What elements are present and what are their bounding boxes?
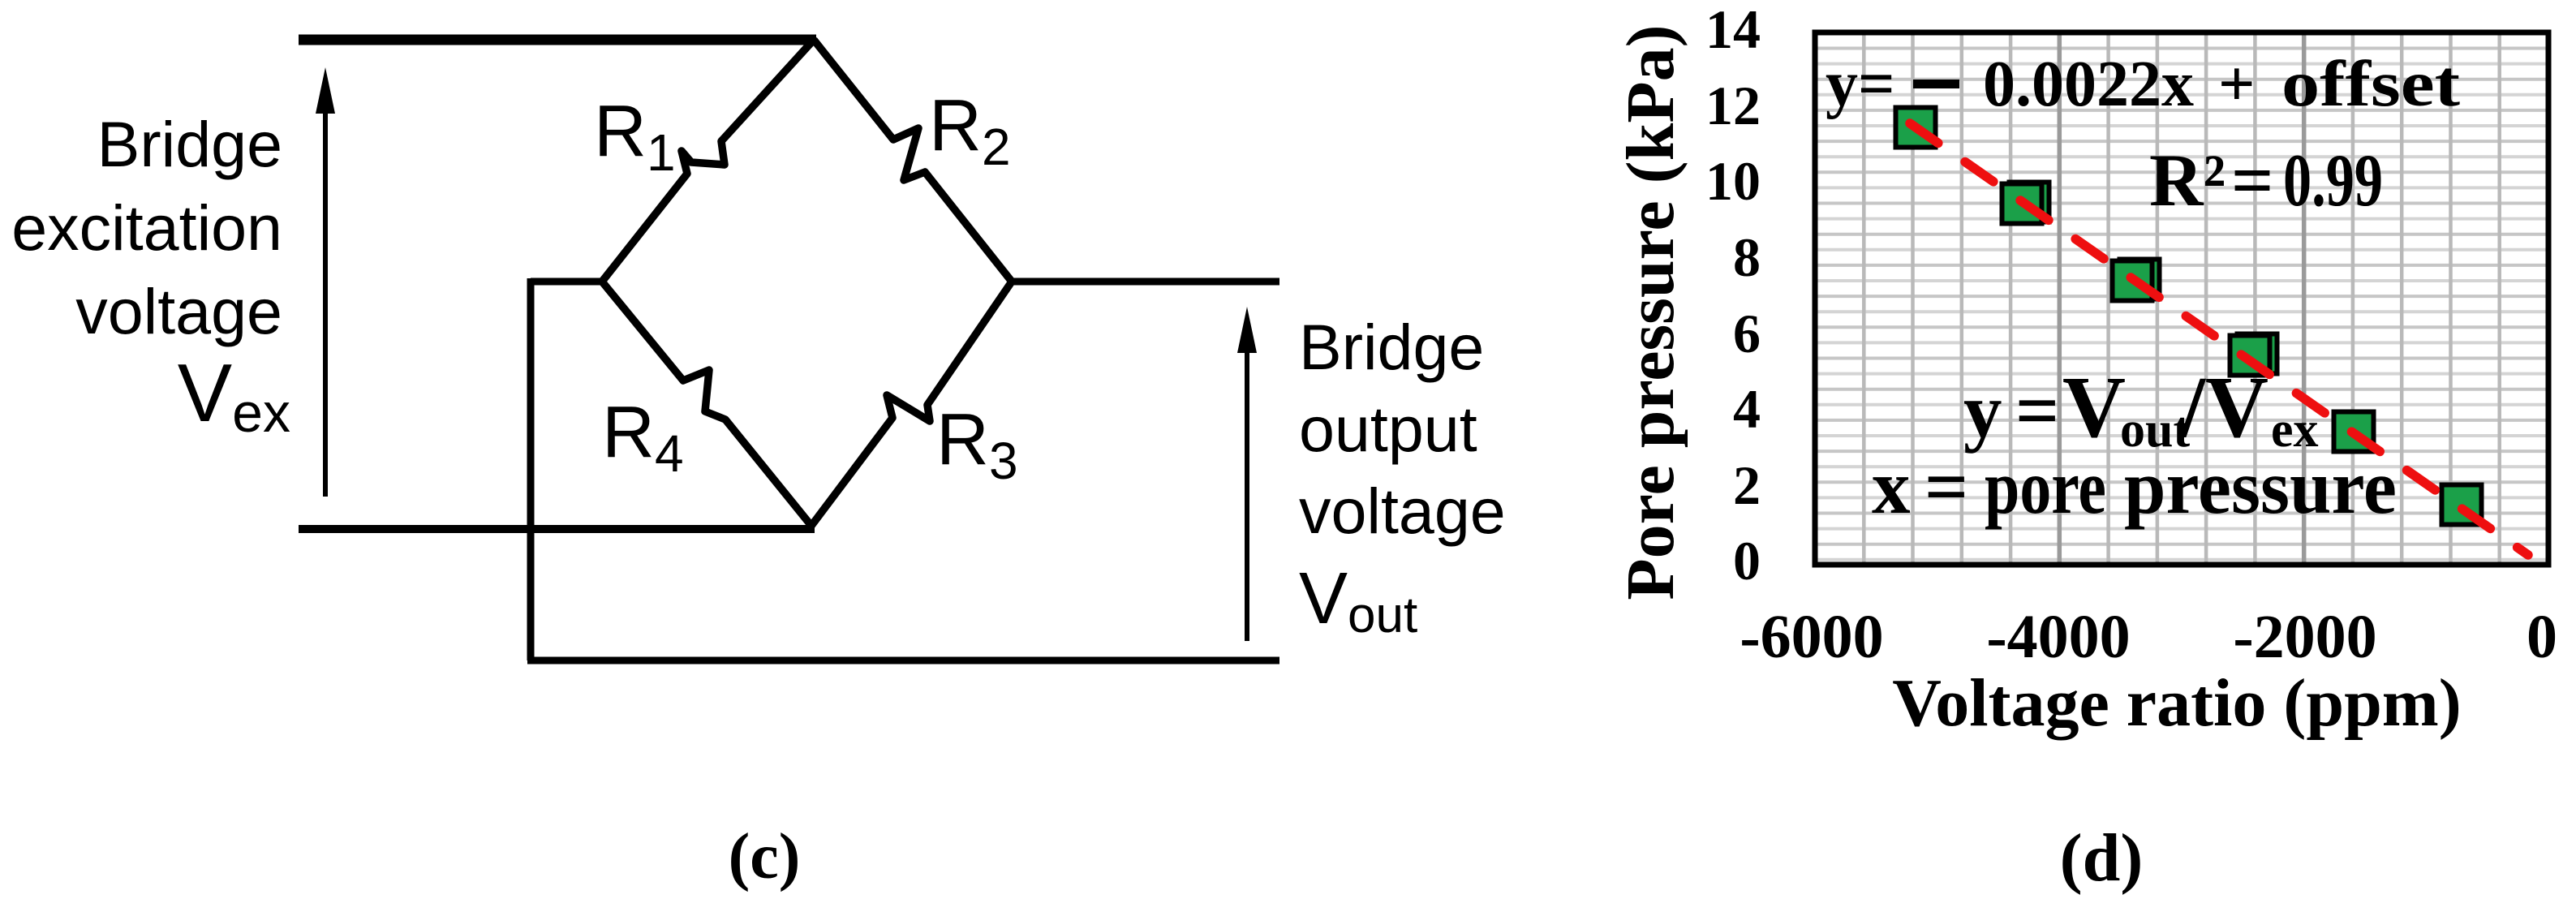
svg-text:2: 2 bbox=[1733, 454, 1761, 516]
resistor R4 (bottom-left bridge arm) bbox=[602, 282, 811, 526]
svg-text:0: 0 bbox=[2527, 603, 2557, 671]
data point 3 ghost (offset duplicate square) bbox=[2120, 260, 2160, 299]
svg-text:14: 14 bbox=[1705, 0, 1761, 60]
data point 2 (green square marker) bbox=[2002, 184, 2042, 224]
svg-text:0: 0 bbox=[1733, 530, 1761, 591]
svg-text:-6000: -6000 bbox=[1740, 603, 1883, 671]
svg-text:excitation: excitation bbox=[11, 191, 282, 264]
svg-text:(c): (c) bbox=[729, 821, 801, 893]
resistor R3 (bottom-right bridge arm) bbox=[811, 282, 1012, 526]
resistor R1 (top-left bridge arm) bbox=[602, 40, 814, 282]
svg-text:-4000: -4000 bbox=[1986, 603, 2130, 671]
svg-text:8: 8 bbox=[1733, 226, 1761, 288]
data point 4 (green square marker) bbox=[2230, 336, 2270, 376]
trend line (red dashed) bbox=[1910, 123, 2528, 555]
svg-text:output: output bbox=[1299, 393, 1477, 465]
data point 1 (green square marker) bbox=[1896, 108, 1936, 148]
svg-text:Bridge: Bridge bbox=[97, 108, 282, 180]
svg-text:6: 6 bbox=[1733, 303, 1761, 364]
wire: top excitation rail bbox=[299, 35, 816, 45]
svg-text:Pore pressure (kPa): Pore pressure (kPa) bbox=[1613, 24, 1688, 600]
data point 5 (green square marker) bbox=[2334, 412, 2374, 452]
data point 6 (green square marker) bbox=[2442, 485, 2482, 525]
svg-text:y=: y= bbox=[1826, 49, 1895, 120]
svg-text:R²=0.99: R²=0.99 bbox=[2149, 139, 2383, 222]
arrow: bridge output voltage Vout (vertical, head up) bbox=[1245, 320, 1249, 641]
gridline: major vertical at -2000 bbox=[2302, 34, 2307, 563]
gridline: major vertical at -4000 bbox=[2058, 34, 2062, 563]
svg-text:4: 4 bbox=[1733, 378, 1761, 440]
data point 2 ghost (offset duplicate square) bbox=[2010, 183, 2049, 222]
wire: left vertical drop (bridge left node to output rail) bbox=[527, 278, 535, 660]
gridlines: minor vertical bbox=[1864, 34, 2499, 563]
wire: output top rail (bridge right node to output terminal) bbox=[1008, 278, 1279, 286]
svg-text:Bridge: Bridge bbox=[1299, 311, 1484, 383]
data point 3 (green square marker) bbox=[2113, 261, 2152, 301]
svg-text:voltage: voltage bbox=[1299, 475, 1506, 547]
data point 4 ghost (offset duplicate square) bbox=[2238, 334, 2277, 374]
svg-text:0.0022x+offset: 0.0022x+offset bbox=[1983, 49, 2460, 120]
svg-text:-2000: -2000 bbox=[2233, 603, 2376, 671]
svg-text:voltage: voltage bbox=[75, 275, 282, 347]
resistor R2 (top-right bridge arm) bbox=[814, 40, 1012, 282]
wire: bottom excitation rail bbox=[299, 525, 815, 533]
svg-text:Voltage ratio (ppm): Voltage ratio (ppm) bbox=[1892, 665, 2462, 741]
plot frame bbox=[1815, 32, 2548, 565]
svg-text:x=porepressure: x=porepressure bbox=[1872, 444, 2397, 530]
svg-text:(d): (d) bbox=[2060, 820, 2144, 896]
gridlines: minor horizontal bbox=[1817, 49, 2546, 560]
arrow: bridge excitation voltage Vex (vertical, head up) bbox=[323, 81, 328, 497]
svg-text:10: 10 bbox=[1705, 150, 1761, 212]
wire: stub from left vertical to bridge left node bbox=[531, 278, 605, 286]
wire: output bottom rail bbox=[527, 657, 1279, 665]
annotation: regression equation minus dash bbox=[1913, 80, 1959, 88]
svg-text:12: 12 bbox=[1705, 75, 1761, 136]
